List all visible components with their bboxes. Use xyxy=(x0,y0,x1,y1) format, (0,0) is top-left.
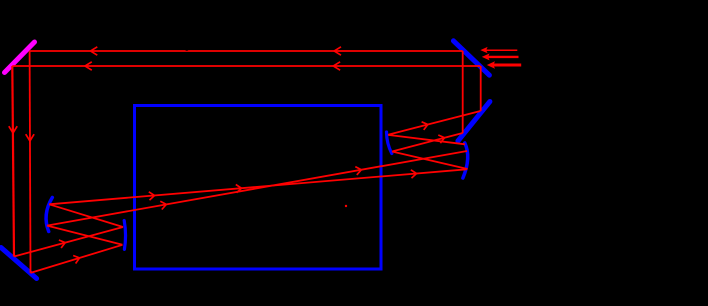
beam vR1 (M4 up to M3) xyxy=(462,51,464,133)
beam top2 (lower return beam) xyxy=(12,65,480,67)
arrow on s1 xyxy=(422,122,428,130)
beam vL1 (left vertical from M1) xyxy=(12,66,14,257)
input beam in3 xyxy=(491,64,521,67)
arrow a5 on vL1 (down) xyxy=(9,126,17,133)
mirror M1 (magenta fold mirror, top-left) xyxy=(5,42,35,73)
input arrow in3 xyxy=(487,61,495,69)
beam Q (CM1 across box to CM2) xyxy=(47,151,467,226)
beam P (CM1 across box to CM2) xyxy=(49,169,466,204)
mirror M4 (fold mirror, right) xyxy=(458,102,490,142)
beam top1 (upper return beam) xyxy=(30,50,463,52)
input beam in1 xyxy=(485,49,517,51)
beam m1 (SM1 to CM1) xyxy=(49,204,123,227)
arrow a1 on top1 xyxy=(91,47,98,55)
arrow a6 on vL2 (down) xyxy=(26,134,34,141)
beam b2 (M2 to SM1) xyxy=(31,245,123,273)
small mirror SM1 (bottom-left cell) xyxy=(124,221,125,250)
concave mirror CM2 (right cell) xyxy=(463,143,468,178)
arrow a3 on top1 xyxy=(334,47,341,55)
beam s1 (SM2 to M4) xyxy=(388,111,480,135)
arrow on b2 xyxy=(73,256,79,264)
concave mirror CM1 (bottom-left cell) xyxy=(46,198,52,232)
arrow on s2 xyxy=(438,135,444,143)
arrow a4 on top2 xyxy=(333,62,340,70)
beam vL2 (left vertical from M1) xyxy=(29,51,32,273)
small mirror SM2 (right cell) xyxy=(387,132,392,154)
input beam in2 xyxy=(487,56,519,58)
beam s3 (CM2 to SM2) xyxy=(388,135,465,144)
mirror M2 (blue fold mirror, bottom-left) xyxy=(1,248,37,279)
focus dot xyxy=(345,205,347,207)
beam b1 (M2 to SM1) xyxy=(14,227,123,257)
beam vR2 (M4 up to M3) xyxy=(480,66,482,111)
arrow on Q (x165) xyxy=(160,201,166,209)
beam m2 (SM1 to CM1) xyxy=(47,226,123,245)
input arrow in1 xyxy=(480,47,487,53)
arrow on b1 xyxy=(59,240,65,248)
mirror M3 (input coupler, top-right) xyxy=(453,41,489,75)
arrow on P (x415) xyxy=(411,170,417,178)
amplifier box xyxy=(135,106,382,270)
arrow a2 on top2 xyxy=(85,62,92,70)
notch on top1 xyxy=(185,47,189,51)
arrow on P (x240) xyxy=(236,185,242,193)
beam s2 (SM2 to M4) xyxy=(392,133,463,152)
beam s4 (SM2 to CM2) xyxy=(392,152,468,170)
arrow on Q (x360) xyxy=(355,167,361,175)
input arrow in2 xyxy=(482,53,490,60)
arrow on P (x153) xyxy=(149,192,155,200)
